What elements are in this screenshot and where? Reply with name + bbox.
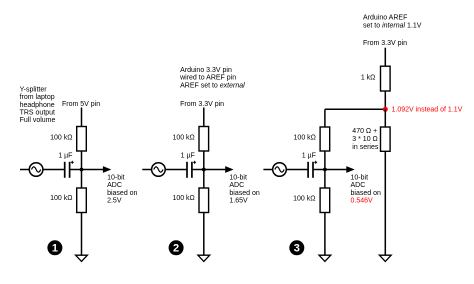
svg-text:3: 3 <box>294 243 300 255</box>
wire: arrow to ADC output (circuit 3) <box>325 166 355 173</box>
resistor R8 470 + 3x10 in series (circuit 3) <box>381 127 391 151</box>
node: ADC tap junction (circuit 1) <box>80 168 84 172</box>
svg-text:Full volume: Full volume <box>20 117 56 124</box>
label: C1 polarity + <box>71 161 74 163</box>
wire: arrow to ADC output (circuit 2) <box>204 166 234 173</box>
annotation: AREF internal note <box>363 15 422 30</box>
svg-text:biased on: biased on <box>107 190 137 197</box>
svg-text:Y-splitter: Y-splitter <box>20 86 48 93</box>
svg-text:1 µF: 1 µF <box>58 153 72 160</box>
svg-text:100 kΩ: 100 kΩ <box>172 195 194 202</box>
svg-text:biased on: biased on <box>351 190 381 197</box>
label: R8 value 470 + 3*10 in series <box>352 128 379 151</box>
svg-text:biased on: biased on <box>229 190 259 197</box>
svg-text:10-bit: 10-bit <box>229 175 247 182</box>
svg-text:100 kΩ: 100 kΩ <box>172 135 194 142</box>
svg-text:AREF set to external: AREF set to external <box>180 82 245 89</box>
wire: C2 to ADC node <box>192 169 204 171</box>
wire: R8 bottom to ground <box>384 151 386 255</box>
label: 10-bit ADC biased on 0.546V <box>351 175 381 205</box>
ground (circuit 1) <box>76 255 88 261</box>
wire: R6 bottom to ADC node <box>324 151 326 170</box>
svg-text:1 kΩ: 1 kΩ <box>361 74 376 81</box>
wire: ADC node down to R7 <box>324 170 326 189</box>
wire: AREF node across to divider branch <box>325 108 385 110</box>
wire: R3 bottom to ADC node <box>203 151 205 170</box>
annotation: AREF external note <box>179 67 245 89</box>
node: ADC tap junction (circuit 2) <box>202 168 206 172</box>
svg-text:1: 1 <box>52 243 58 255</box>
node: ADC tap junction (circuit 3) <box>323 168 327 172</box>
AC source V2 (audio input, circuit 2) <box>142 163 165 177</box>
resistor R6 (upper 100 k, circuit 3) <box>320 127 330 151</box>
wire: R7 bottom to ground <box>324 213 326 256</box>
wire: 5V feed down to R1 <box>81 108 83 127</box>
resistor R5 1 k (circuit 3) <box>381 66 391 91</box>
wire: ADC node down to R4 <box>203 170 205 189</box>
label: circuit number 2 <box>169 240 184 255</box>
resistor R4 (lower 100 k, circuit 2) <box>199 188 209 213</box>
svg-text:wired to AREF pin: wired to AREF pin <box>179 75 236 82</box>
annotation: Y-splitter input note <box>20 86 56 124</box>
resistor R7 (lower 100 k, circuit 3) <box>320 188 330 213</box>
svg-text:1.092V instead of 1.1V: 1.092V instead of 1.1V <box>392 107 463 114</box>
svg-text:From 3.3V pin: From 3.3V pin <box>180 101 224 108</box>
wire: source to C1 <box>43 169 65 171</box>
svg-text:From 3.3V pin: From 3.3V pin <box>363 40 407 47</box>
svg-text:From 5V pin: From 5V pin <box>62 101 100 108</box>
svg-text:1 µF: 1 µF <box>302 153 316 160</box>
svg-text:10-bit: 10-bit <box>351 175 369 182</box>
ground (circuit 2) <box>198 255 210 261</box>
resistor R3 (upper 100 k, circuit 2) <box>199 127 209 152</box>
svg-text:headphone: headphone <box>20 102 55 109</box>
label: 10-bit ADC biased on 2.5V <box>107 175 137 205</box>
resistor R1 (upper 100 k, circuit 1) <box>77 127 87 152</box>
ground (circuit 3 right) <box>379 255 391 261</box>
node: AREF divider junction (red) <box>383 107 388 112</box>
svg-text:470 Ω +: 470 Ω + <box>352 128 377 135</box>
wire: arrow to ADC output (circuit 1) <box>82 166 112 173</box>
svg-text:100 kΩ: 100 kΩ <box>294 135 316 142</box>
svg-text:10-bit: 10-bit <box>107 175 125 182</box>
wire: ADC node down to R2 <box>81 170 83 189</box>
capacitor C2 1 uF (circuit 2) <box>186 162 188 178</box>
svg-text:100 kΩ: 100 kΩ <box>293 195 315 202</box>
svg-text:0.546V: 0.546V <box>351 198 374 205</box>
svg-text:2.5V: 2.5V <box>107 198 122 205</box>
svg-text:Arduino AREF: Arduino AREF <box>363 15 407 22</box>
label: circuit number 3 <box>289 240 304 255</box>
svg-text:Arduino 3.3V pin: Arduino 3.3V pin <box>180 67 232 74</box>
svg-text:from laptop: from laptop <box>20 94 55 101</box>
svg-text:100 kΩ: 100 kΩ <box>50 195 72 202</box>
label: C3 polarity + <box>314 161 317 163</box>
svg-text:ADC: ADC <box>107 182 122 189</box>
ground (circuit 3 left) <box>319 255 331 261</box>
svg-text:1 µF: 1 µF <box>181 153 195 160</box>
wire: R5 bottom to AREF node <box>384 91 386 109</box>
wire: R4 bottom to ground <box>203 213 205 256</box>
capacitor C1 1 uF (circuit 1) <box>64 162 66 178</box>
wire: 3.3V feed down to R5 <box>384 48 386 67</box>
wire: AREF node down to R8 <box>384 109 386 127</box>
wire: C1 to ADC node <box>70 169 82 171</box>
capacitor C3 1 uF (circuit 3) <box>307 162 309 178</box>
svg-text:1.65V: 1.65V <box>229 198 248 205</box>
svg-text:2: 2 <box>173 243 179 255</box>
wire: C3 to ADC node <box>313 169 325 171</box>
svg-text:3 * 10 Ω: 3 * 10 Ω <box>352 136 377 143</box>
label: circuit number 1 <box>47 240 62 255</box>
wire: R1 bottom to ADC node <box>81 151 83 170</box>
label: C2 polarity + <box>193 161 196 163</box>
AC source V1 (audio input, circuit 1) <box>20 163 43 177</box>
svg-text:TRS output: TRS output <box>20 110 55 117</box>
AC source V3 (audio input, circuit 3) <box>263 163 286 177</box>
wire: R2 bottom to ground <box>81 213 83 256</box>
svg-text:ADC: ADC <box>351 182 366 189</box>
svg-text:ADC: ADC <box>229 182 244 189</box>
svg-text:in series: in series <box>352 144 379 151</box>
wire: source to C3 <box>286 169 308 171</box>
wire: 3.3V feed down to R3 <box>203 108 205 127</box>
wire: source to C2 <box>165 169 187 171</box>
resistor R2 (lower 100 k, circuit 1) <box>77 188 87 213</box>
wire: branch down to R6 <box>324 109 326 127</box>
label: 10-bit ADC biased on 1.65V <box>229 175 259 205</box>
svg-text:set to internal 1.1V: set to internal 1.1V <box>363 22 422 29</box>
svg-text:100 kΩ: 100 kΩ <box>50 135 72 142</box>
